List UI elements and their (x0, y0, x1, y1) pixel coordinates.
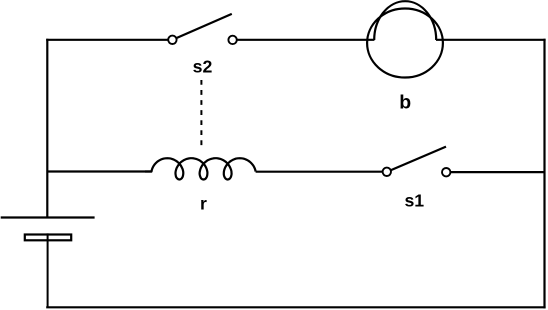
inductor r coil (145, 158, 256, 179)
switch s1 right terminal (442, 168, 450, 176)
wire middle (coil to s1) (256, 171, 383, 173)
svg-text:b: b (399, 92, 411, 114)
switch s2 left terminal (168, 36, 176, 44)
wire top right (bell to right corner) (436, 39, 546, 41)
wire middle right (s1 to right vertical) (450, 171, 544, 173)
wire battery to bottom (47, 233, 49, 307)
wire top middle (s2 to bell) (237, 39, 375, 41)
switch s2 right terminal (228, 36, 236, 44)
battery bottom plate (rect) (25, 235, 71, 241)
switch s1 lever (391, 147, 446, 171)
wire top-left horizontal (46, 39, 168, 41)
switch s2 lever (176, 14, 232, 38)
battery top plate (long) (1, 216, 95, 218)
wire middle left (to coil) (47, 170, 152, 172)
wire right vertical (543, 39, 545, 309)
svg-text:s2: s2 (193, 57, 213, 77)
wire bottom horizontal (46, 306, 545, 308)
svg-text:r: r (200, 193, 207, 213)
svg-text:s1: s1 (404, 190, 424, 210)
bell b body ellipse (367, 9, 443, 78)
mechanical link dashed line s2-r (200, 80, 202, 145)
switch s1 left terminal (383, 168, 391, 176)
bell b outer gong arc (374, 1, 436, 40)
wire left vertical (46, 39, 48, 218)
